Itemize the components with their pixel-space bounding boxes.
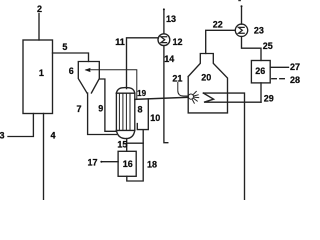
svg-text:26: 26 (255, 66, 265, 76)
svg-text:8: 8 (137, 104, 142, 114)
svg-text:23: 23 (254, 25, 264, 35)
svg-text:5: 5 (62, 42, 67, 52)
svg-text:22: 22 (213, 20, 223, 30)
svg-text:7: 7 (76, 104, 81, 114)
svg-text:18: 18 (147, 159, 157, 169)
svg-text:2: 2 (37, 4, 42, 14)
svg-text:19: 19 (137, 89, 146, 98)
svg-text:10: 10 (150, 113, 160, 123)
svg-text:12: 12 (172, 37, 182, 47)
svg-text:9: 9 (98, 104, 103, 114)
svg-text:3: 3 (0, 130, 5, 140)
svg-text:4: 4 (50, 130, 55, 140)
svg-text:11: 11 (115, 37, 125, 47)
svg-text:6: 6 (69, 66, 74, 76)
svg-text:14: 14 (164, 54, 174, 64)
svg-text:21: 21 (172, 73, 182, 83)
svg-text:16: 16 (123, 159, 133, 169)
svg-text:17: 17 (87, 158, 97, 168)
svg-text:1: 1 (39, 68, 44, 78)
svg-text:25: 25 (263, 41, 273, 51)
svg-text:20: 20 (201, 72, 211, 82)
svg-text:15: 15 (117, 140, 127, 150)
svg-text:13: 13 (166, 14, 176, 24)
svg-text:27: 27 (290, 62, 300, 72)
svg-text:29: 29 (264, 93, 274, 103)
svg-text:28: 28 (290, 75, 300, 85)
